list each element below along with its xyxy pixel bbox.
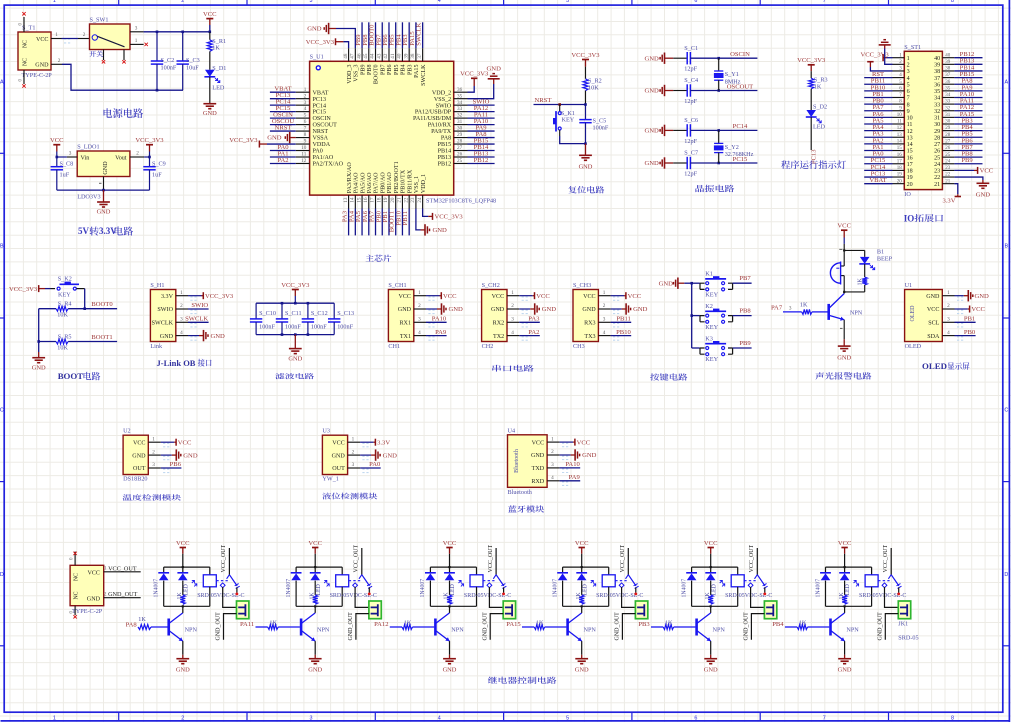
svg-text:JK1: JK1 <box>898 620 908 627</box>
wire emitter to GND (relay PA11) <box>314 641 316 655</box>
svg-text:1: 1 <box>104 565 107 571</box>
svg-text:VCC: VCC <box>87 571 100 577</box>
svg-text:RX1: RX1 <box>399 321 411 327</box>
diode 1N4007 <box>825 567 827 573</box>
header pin 4 <box>893 77 905 79</box>
svg-text:PA0: PA0 <box>313 149 323 155</box>
svg-text:LED: LED <box>813 123 826 130</box>
svg-text:NPN: NPN <box>846 627 859 634</box>
svg-text:VCC: VCC <box>176 540 190 547</box>
svg-text:K2: K2 <box>705 303 713 310</box>
svg-text:38: 38 <box>934 69 940 75</box>
wire net PB6 <box>161 467 182 469</box>
svg-text:27: 27 <box>457 145 463 151</box>
wire net PB7 <box>733 282 752 284</box>
svg-text:12: 12 <box>301 158 307 164</box>
terminal block (relay PA15) <box>635 601 647 619</box>
svg-text:BEEP: BEEP <box>877 255 893 262</box>
wire net PC15 <box>270 111 296 113</box>
svg-text:25: 25 <box>934 155 940 161</box>
svg-text:VCC: VCC <box>492 294 505 300</box>
svg-text:S_C4: S_C4 <box>684 77 698 84</box>
power port VCC_3V3 (reset) <box>582 59 589 61</box>
transistor NPN (relay PA12) <box>434 619 437 636</box>
svg-text:3: 3 <box>152 462 155 468</box>
relay NO contact red dot <box>368 587 370 592</box>
relay frame wires <box>164 566 210 568</box>
wire net VBAT <box>270 91 296 93</box>
svg-text:C: C <box>1004 408 1008 414</box>
wire Vout <box>130 156 144 158</box>
mcu pin 18 PB0/AO <box>381 195 383 208</box>
wire net PA0 (left row 16) <box>864 156 892 158</box>
svg-text:7: 7 <box>907 96 910 102</box>
module S_CH1 pin 2 stub <box>414 308 426 310</box>
svg-text:34: 34 <box>457 100 463 106</box>
ground GND power circuit <box>203 103 216 105</box>
svg-text:VCC: VCC <box>532 440 545 446</box>
svg-text:1: 1 <box>352 436 355 442</box>
wire net GND_OUT (relay PA15) <box>622 614 635 640</box>
wire emitter to GND (alarm) <box>843 320 845 340</box>
header pin 26 <box>942 150 954 152</box>
wire NC to terminal <box>885 587 899 607</box>
svg-text:VCC_3V3: VCC_3V3 <box>205 293 234 300</box>
wire net OSCIN <box>690 57 757 59</box>
capacitor S_C9 1uF <box>149 157 151 167</box>
svg-text:1: 1 <box>418 290 421 296</box>
mcu pin 8 VSSA <box>296 137 310 139</box>
svg-text:1K: 1K <box>404 619 412 626</box>
svg-text:1K: 1K <box>839 592 845 600</box>
svg-text:17: 17 <box>370 197 376 203</box>
header pin 31 <box>942 116 954 118</box>
relay contact armature <box>361 548 363 575</box>
svg-text:GND: GND <box>211 333 226 340</box>
mcu pin 46 PB9 <box>361 48 363 61</box>
svg-text:4: 4 <box>180 330 183 336</box>
svg-text:8: 8 <box>907 102 910 108</box>
wire net PC14 <box>270 104 296 106</box>
svg-text:PA15: PA15 <box>414 65 420 78</box>
svg-text:VCC: VCC <box>332 440 345 446</box>
svg-text:BOOT0: BOOT0 <box>91 301 113 308</box>
svg-text:KEY: KEY <box>58 292 71 299</box>
wire net PA1 <box>270 156 296 158</box>
capacitor S_C4 12pF <box>673 90 687 92</box>
svg-text:Link: Link <box>150 343 163 350</box>
svg-text:2: 2 <box>551 449 554 455</box>
svg-text:29: 29 <box>934 129 940 135</box>
svg-text:PA12/USB/DP: PA12/USB/DP <box>415 110 452 116</box>
capacitor S_C8 1uF <box>56 157 58 167</box>
wire net PB12 <box>468 162 495 164</box>
svg-text:1K: 1K <box>309 592 315 600</box>
svg-text:GND: GND <box>307 26 322 33</box>
svg-text:3: 3 <box>310 715 313 721</box>
led (relay PA15) <box>581 567 583 573</box>
diode 1N4007 <box>691 567 693 573</box>
svg-text:GND: GND <box>633 306 648 313</box>
switch bottom stubs no-connect <box>103 50 105 61</box>
svg-text:GND: GND <box>645 160 660 167</box>
relay coil box SRD-05VDC-SL-C <box>871 567 873 575</box>
wire net PA8 (right row 36) <box>954 83 982 85</box>
svg-text:21: 21 <box>934 182 940 188</box>
resistor 1K vertical (relay PA12) <box>447 595 452 604</box>
ground GND (boot) <box>38 352 40 358</box>
svg-text:S_SW1: S_SW1 <box>90 17 109 24</box>
ground GND at mcu VSSA <box>290 137 296 139</box>
svg-text:23: 23 <box>410 197 416 203</box>
capacitor S_C2 100nF <box>156 32 158 61</box>
wire to key K3 <box>692 347 700 349</box>
svg-text:VCC: VCC <box>628 293 642 300</box>
svg-text:LED: LED <box>316 584 322 595</box>
connector S_T1 TYPE-C-2P <box>18 32 51 70</box>
svg-text:23: 23 <box>934 169 940 175</box>
wire net PB1 (left row 7) <box>864 96 892 98</box>
svg-text:S_Y2: S_Y2 <box>725 144 739 151</box>
filter top rail <box>256 302 334 304</box>
svg-text:PB3: PB3 <box>407 65 413 76</box>
svg-text:24: 24 <box>934 162 940 168</box>
svg-text:PA9: PA9 <box>435 329 447 336</box>
svg-text:PB10: PB10 <box>616 329 631 336</box>
svg-text:16: 16 <box>907 155 913 161</box>
svg-text:SCL: SCL <box>928 321 939 327</box>
svg-text:Vout: Vout <box>115 155 127 161</box>
module U1 pin 1 stub <box>942 295 954 297</box>
svg-text:2: 2 <box>907 63 910 69</box>
svg-text:D: D <box>1004 572 1008 578</box>
svg-text:PB15: PB15 <box>438 142 452 148</box>
svg-text:33: 33 <box>934 102 940 108</box>
module U4 Bluetooth body <box>508 435 548 488</box>
svg-text:9: 9 <box>907 109 910 115</box>
svg-text:100nF: 100nF <box>337 323 353 330</box>
mcu pin 41 PB5 <box>395 48 397 61</box>
svg-text:PB14: PB14 <box>438 149 452 155</box>
svg-text:2: 2 <box>104 591 107 597</box>
mcu pin 13 PA3/RX/AO <box>348 195 350 208</box>
svg-text:VCC: VCC <box>398 294 411 300</box>
header pin 39 <box>942 63 954 65</box>
svg-text:PA9/TX: PA9/TX <box>431 129 452 135</box>
svg-text:S_C11: S_C11 <box>285 310 302 317</box>
svg-text:7: 7 <box>823 715 826 721</box>
wire net NRST <box>270 130 296 132</box>
switch pin3 stub <box>130 31 144 33</box>
header pin 6 <box>893 90 905 92</box>
module U1 OLED body <box>905 290 943 342</box>
svg-text:VBAT: VBAT <box>869 177 886 184</box>
svg-text:IO: IO <box>904 191 911 198</box>
caption reset circuit <box>568 186 604 193</box>
svg-text:GND: GND <box>491 307 505 313</box>
module U2 DS18B20 body <box>123 435 148 474</box>
svg-text:S_C1: S_C1 <box>684 45 698 52</box>
svg-text:S_C13: S_C13 <box>337 310 354 317</box>
svg-text:16: 16 <box>897 153 903 158</box>
header pin 34 <box>942 96 954 98</box>
svg-text:GND: GND <box>443 667 457 674</box>
wire net GND_OUT (relay PB3) <box>751 614 764 640</box>
svg-text:BOOT0: BOOT0 <box>374 65 380 85</box>
module U2 pin 2 stub <box>148 454 161 456</box>
svg-text:35: 35 <box>457 93 463 99</box>
svg-text:34: 34 <box>945 93 951 98</box>
svg-text:GND: GND <box>103 161 109 175</box>
mcu pin 25 PB12 <box>454 162 468 164</box>
wire net GND_OUT (relay PA8) <box>224 614 237 640</box>
wire top rail to VCC <box>144 31 210 33</box>
svg-text:30: 30 <box>934 122 940 128</box>
svg-text:S_CH2: S_CH2 <box>482 282 500 289</box>
wire net PB0 <box>381 209 383 236</box>
svg-text:27: 27 <box>934 142 940 148</box>
svg-text:1K: 1K <box>705 592 711 600</box>
svg-text:27: 27 <box>945 139 951 144</box>
svg-text:24: 24 <box>417 197 423 203</box>
svg-text:5V: 5V <box>78 226 90 236</box>
header pin 16 <box>893 156 905 158</box>
module U1 pin 2 stub <box>942 308 954 310</box>
svg-text:1: 1 <box>55 32 58 38</box>
svg-text:1: 1 <box>603 290 606 296</box>
wire net PA5 (left row 11) <box>864 123 892 125</box>
svg-text:35: 35 <box>934 89 940 95</box>
svg-text:25: 25 <box>457 158 463 164</box>
header pin 3 <box>893 70 905 72</box>
svg-text:6: 6 <box>304 119 307 125</box>
svg-text:31: 31 <box>934 116 940 122</box>
svg-text:GND: GND <box>176 667 190 674</box>
resistor 1K vertical (relay PA8) <box>180 595 185 604</box>
header pin 25 <box>942 156 954 158</box>
wire net PA9 <box>426 335 447 337</box>
svg-text:VCC: VCC <box>536 293 550 300</box>
svg-text:S_R4: S_R4 <box>58 301 72 308</box>
capacitor S_C3 10uF <box>182 32 184 61</box>
module S_CH2 pin 3 stub <box>507 321 519 323</box>
svg-text:37: 37 <box>945 73 951 78</box>
wire to key K1 <box>692 282 700 284</box>
module U3 pin 1 stub <box>348 441 361 443</box>
svg-text:1K: 1K <box>799 619 807 626</box>
wire net PB3 (right row 30) <box>954 123 982 125</box>
svg-text:4: 4 <box>907 76 910 82</box>
svg-text:1K: 1K <box>536 619 544 626</box>
svg-text:VCC: VCC <box>443 540 457 547</box>
wire net PA11 <box>468 117 495 119</box>
svg-text:18: 18 <box>376 197 382 203</box>
power port VCC (LDO in) <box>53 144 60 146</box>
resistor 1K vertical (relay PA11) <box>313 595 318 604</box>
mcu pin 28 PB15 <box>454 143 468 145</box>
svg-text:19: 19 <box>897 173 903 178</box>
svg-text:2: 2 <box>511 303 514 309</box>
module U4 pin 1 stub <box>547 441 560 443</box>
svg-text:38: 38 <box>410 53 416 59</box>
caption program run indicator <box>781 160 846 169</box>
led (relay PA12) <box>449 567 451 573</box>
svg-text:VCC: VCC <box>583 294 596 300</box>
svg-text:39: 39 <box>945 60 951 65</box>
svg-text:TXD: TXD <box>532 466 545 472</box>
svg-text:VCC: VCC <box>203 11 217 18</box>
wire net PB7 <box>381 22 383 48</box>
svg-text:S_U1: S_U1 <box>310 54 324 61</box>
wire net PB6 <box>388 22 390 48</box>
svg-text:NPN: NPN <box>451 627 464 634</box>
wire key to BOOT0 <box>84 289 86 309</box>
relay NO contact red dot <box>898 587 900 592</box>
svg-text:SRD-05: SRD-05 <box>898 635 918 642</box>
keys left rail <box>691 283 693 348</box>
svg-text:21: 21 <box>945 179 951 184</box>
svg-text:A: A <box>1004 79 1008 85</box>
svg-text:OLED: OLED <box>905 343 922 350</box>
relay contact armature <box>228 548 230 575</box>
svg-text:31: 31 <box>945 113 951 118</box>
svg-text:PB5: PB5 <box>394 65 400 76</box>
wire emitter to GND (relay PA12) <box>449 641 451 655</box>
wire net PB13 (right row 39) <box>954 63 982 65</box>
relay frame wires <box>563 566 609 568</box>
wire net PB1 <box>388 209 390 236</box>
svg-text:VCC: VCC <box>575 540 589 547</box>
mcu pin 6 OSCOUT <box>296 124 310 126</box>
svg-text:VDD_2: VDD_2 <box>432 90 451 96</box>
module S_CH3 CH3 body <box>573 290 598 342</box>
capacitor S_C10 100nF <box>255 303 257 319</box>
svg-text:VCC: VCC <box>837 223 851 230</box>
svg-text:40: 40 <box>945 53 951 58</box>
svg-text:28: 28 <box>934 135 940 141</box>
svg-text:PC14: PC14 <box>733 123 748 130</box>
svg-text:NPN: NPN <box>317 627 330 634</box>
border row ticks and letters <box>1003 152 1010 154</box>
wire LED to GND <box>209 77 211 104</box>
svg-text:5: 5 <box>304 113 307 119</box>
power port VCC (relay PB3) <box>708 547 714 549</box>
wire net PA5 <box>361 209 363 236</box>
module S_CH2 pin 2 stub <box>507 308 519 310</box>
wire net BOOT0 <box>39 308 56 310</box>
svg-text:VCC_OUT: VCC_OUT <box>221 544 227 572</box>
svg-text:GND_OUT: GND_OUT <box>108 591 137 598</box>
ground GND at mcu VSS_2 <box>468 84 494 99</box>
svg-text:A: A <box>0 79 4 85</box>
svg-text:GND: GND <box>332 453 346 459</box>
mcu pin 16 PA6/AO <box>368 195 370 208</box>
relay contact armature <box>756 548 758 575</box>
module S_CH2 CH2 body <box>482 290 507 342</box>
svg-text:PA9: PA9 <box>569 474 581 481</box>
svg-text:VCC: VCC <box>838 540 852 547</box>
header pin 14 <box>893 143 905 145</box>
svg-text:S_R5: S_R5 <box>58 333 72 340</box>
connector TYPE-C-2P (relay power) <box>70 565 104 605</box>
svg-text:13: 13 <box>897 133 903 138</box>
caption liquid level module <box>322 493 377 500</box>
wire NC to terminal <box>751 587 765 607</box>
svg-text:PA2/TX/AO: PA2/TX/AO <box>313 162 344 168</box>
key K1 KEY <box>700 283 705 289</box>
mcu pin 36 VDD_2 <box>454 91 468 93</box>
wire net PB15 <box>468 143 495 145</box>
svg-text:BOOT: BOOT <box>58 371 84 381</box>
svg-text:Vin: Vin <box>81 155 90 161</box>
svg-text:3: 3 <box>551 462 554 468</box>
header pin 8 <box>893 103 905 105</box>
S_T1 top no-connect pin <box>23 17 25 32</box>
svg-text:PB4: PB4 <box>401 65 407 76</box>
wire net PA6 (left row 10) <box>864 116 892 118</box>
header pin 13 <box>893 136 905 138</box>
svg-text:15: 15 <box>356 197 362 203</box>
power port VCC (relay PA8) <box>180 547 186 549</box>
svg-text:GND: GND <box>582 452 597 459</box>
relay frame wires <box>296 566 342 568</box>
power port VCC (relay PB4) <box>841 547 847 549</box>
power port VCC <box>611 295 625 297</box>
svg-text:100nF: 100nF <box>311 323 327 330</box>
svg-text:12pF: 12pF <box>684 138 697 145</box>
svg-text:46: 46 <box>356 53 362 59</box>
svg-text:1: 1 <box>907 56 910 62</box>
svg-text:6: 6 <box>694 715 697 721</box>
module U3 pin 3 stub <box>348 467 361 469</box>
relay contact armature <box>890 548 892 575</box>
module S_H1 pin 1 stub <box>176 295 188 297</box>
svg-text:38: 38 <box>945 67 951 72</box>
svg-text:GND: GND <box>203 110 217 117</box>
svg-text:S_CH1: S_CH1 <box>388 282 406 289</box>
svg-text:15: 15 <box>897 146 903 151</box>
caption relay control circuit <box>488 677 556 684</box>
svg-text:GND: GND <box>267 135 282 142</box>
wire emitter to GND (relay PA8) <box>182 641 184 655</box>
mcu pin 2 PC13 <box>296 98 310 100</box>
wire net GND_OUT (relay PA11) <box>356 614 369 640</box>
ground GND <box>560 454 571 456</box>
svg-text:S_R2: S_R2 <box>588 77 602 84</box>
mcu pin 22 PB11/RX <box>408 195 410 208</box>
svg-text:PB6: PB6 <box>170 461 182 468</box>
power port VCC <box>206 18 213 20</box>
svg-text:17: 17 <box>907 162 913 168</box>
svg-text:B: B <box>0 244 4 250</box>
wire net GND_OUT (relay PA12) <box>490 614 503 640</box>
svg-text:1: 1 <box>947 290 950 296</box>
svg-text:37: 37 <box>417 53 423 59</box>
svg-text:4: 4 <box>551 475 554 481</box>
wire net PA15 (right row 31) <box>954 116 982 118</box>
caption main chip <box>366 255 392 262</box>
mcu pin 44 BOOT0 <box>375 48 377 61</box>
wire net PA11 (right row 33) <box>954 103 982 105</box>
svg-text:32: 32 <box>457 113 463 119</box>
svg-text:GND: GND <box>838 667 852 674</box>
ground GND <box>188 335 199 337</box>
relay NC contact diamond <box>353 583 358 588</box>
key S_K2 KEY <box>51 288 56 290</box>
svg-text:PC13: PC13 <box>810 149 817 164</box>
capacitor S_C13 100nF <box>333 303 335 319</box>
svg-text:32: 32 <box>934 109 940 115</box>
